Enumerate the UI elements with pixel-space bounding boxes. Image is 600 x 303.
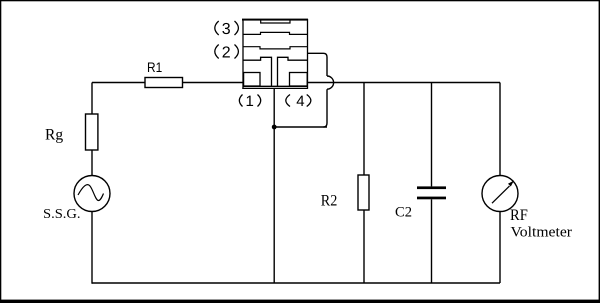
svg-text:C2: C2 <box>395 205 412 221</box>
svg-text:4: 4 <box>296 93 304 110</box>
svg-text:R2: R2 <box>321 193 338 210</box>
svg-text:1: 1 <box>246 93 254 110</box>
svg-text:Rg: Rg <box>45 127 63 144</box>
svg-text:R1: R1 <box>147 59 162 75</box>
svg-text:2: 2 <box>222 45 231 62</box>
svg-text:RF: RF <box>510 207 528 224</box>
svg-text:Voltmeter: Voltmeter <box>511 225 573 241</box>
svg-text:3: 3 <box>222 21 231 38</box>
svg-text:S.S.G.: S.S.G. <box>43 207 81 222</box>
